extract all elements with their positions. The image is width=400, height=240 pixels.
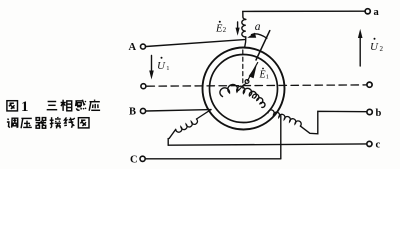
- arrow E2 (down): [236, 22, 240, 36]
- coil E2 (series winding, bumps left): [242, 19, 246, 37]
- stator outer circle: [203, 48, 285, 130]
- caption char jie: [50, 117, 61, 128]
- node: top junction (A phase tap): [245, 37, 246, 48]
- series coil phase B (bumps up along slope): [176, 119, 198, 132]
- label U1: [157, 57, 169, 72]
- rotor winding squiggle (right chain): [252, 94, 264, 107]
- figure caption: [7, 99, 100, 128]
- caption char xian: [64, 117, 74, 127]
- svg-text:2: 2: [380, 45, 384, 53]
- svg-text:C: C: [130, 154, 138, 165]
- rotor inner circle: [210, 55, 278, 123]
- terminal C: [140, 156, 145, 161]
- caption char ying: [89, 100, 100, 111]
- caption char san: [47, 102, 58, 110]
- svg-text:2: 2: [223, 26, 227, 34]
- caption char tu(2): [78, 118, 89, 128]
- svg-text:a: a: [255, 21, 261, 33]
- arrow U1 (down): [149, 56, 154, 80]
- long wire to terminal c: [168, 144, 367, 145]
- terminal A: [141, 44, 146, 49]
- caption char xiang: [61, 100, 72, 111]
- wire to terminal a: [243, 10, 365, 12]
- arrow U2 (up): [358, 29, 363, 66]
- svg-text:U: U: [157, 60, 166, 72]
- coil top lead: [243, 12, 246, 20]
- series coil phase B lead from stator tap: [197, 110, 212, 119]
- rotor winding link to E1 base: [239, 84, 247, 91]
- svg-text:b: b: [376, 108, 382, 119]
- caption char tu(1): [7, 101, 18, 111]
- svg-text:E: E: [259, 70, 266, 81]
- terminal c: [367, 141, 372, 146]
- wire C horizontal: [145, 158, 280, 160]
- svg-text:A: A: [129, 42, 137, 53]
- terminal a: [365, 9, 370, 14]
- svg-text:1: 1: [166, 65, 169, 72]
- node: C phase tap / riser: [280, 116, 282, 159]
- label E2: [215, 21, 227, 35]
- svg-text:1: 1: [21, 99, 29, 115]
- arrow E1 (rotor emf, NE): [245, 63, 258, 84]
- svg-text:c: c: [376, 140, 381, 151]
- series coil phase C (bumps up along slope): [268, 110, 301, 126]
- terminal left (dashed line start): [141, 84, 146, 89]
- svg-text:a: a: [374, 7, 380, 18]
- dashed axis horizontal: [147, 85, 367, 86]
- caption char ya: [21, 118, 32, 128]
- terminal B: [140, 108, 145, 113]
- terminal right (dashed line end): [367, 82, 372, 87]
- svg-text:1: 1: [266, 73, 269, 80]
- lead from coil down to b riser: [300, 111, 366, 134]
- svg-text:B: B: [129, 107, 136, 118]
- rotor axis line (alpha reference): [256, 31, 270, 60]
- lead from coil to c-line: [168, 129, 176, 145]
- rotor winding squiggle (left chain): [220, 84, 256, 98]
- terminal b: [367, 109, 372, 114]
- alpha arc with arrowhead: [252, 34, 267, 38]
- caption char diao: [7, 118, 18, 127]
- dashed vertical axis inside circle: [242, 50, 244, 88]
- svg-text:U: U: [370, 41, 379, 53]
- label U2: [370, 38, 384, 53]
- label E1: [259, 68, 270, 81]
- wire A horizontal: [146, 40, 245, 47]
- caption char qi: [36, 118, 46, 129]
- caption char gan: [75, 100, 86, 111]
- wire B horizontal: [146, 110, 211, 111]
